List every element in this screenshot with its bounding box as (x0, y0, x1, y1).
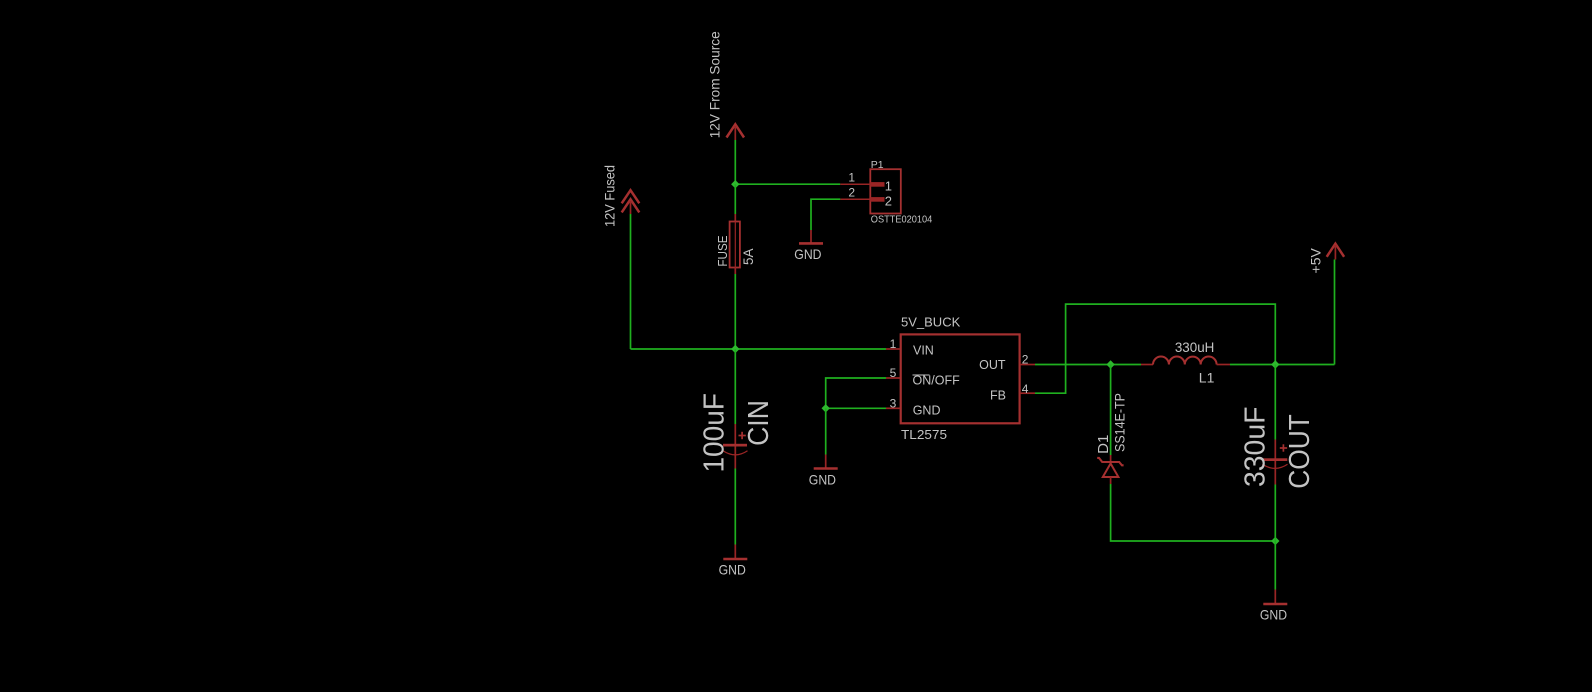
junction at COUT bottom node (1271, 537, 1279, 545)
svg-text:3: 3 (890, 396, 897, 410)
D1 cathode bar with schottky hooks (1097, 458, 1123, 465)
P1 pin 2 bar (870, 197, 884, 202)
IC U1 TL2575 (5V_BUCK) (886, 314, 1035, 442)
junction at CIN top node (731, 345, 739, 353)
wire net GND: CIN to gnd (734, 469, 736, 545)
wire net 12V_F: horizontal to VIN (631, 348, 887, 350)
wire net 12V: junction down to fuse (734, 184, 736, 214)
U1 pin 1 VIN stub (886, 348, 900, 350)
wire net GND: D1 to bottom rail (1111, 484, 1276, 541)
junction at fuse top node (731, 180, 739, 188)
svg-text:1: 1 (848, 171, 855, 185)
svg-text:2: 2 (885, 194, 892, 209)
U1 pin 5 ON/OFF stub (886, 377, 900, 379)
U1 pin 3 GND stub (886, 407, 900, 409)
wire net: gnd branch down (825, 408, 827, 454)
P1 pin 1 bar (870, 182, 884, 187)
wire net +5V: inductor to +5V node (1230, 364, 1335, 366)
svg-text:5V_BUCK: 5V_BUCK (901, 314, 961, 329)
svg-text:5: 5 (890, 366, 897, 380)
COUT plus sign (1280, 447, 1287, 449)
svg-text:OSTTE020104: OSTTE020104 (871, 214, 933, 225)
ground GND (bottom right) (1260, 590, 1287, 623)
svg-text:FUSE: FUSE (715, 235, 730, 266)
svg-text:330uF: 330uF (1240, 407, 1272, 488)
svg-text:D1: D1 (1095, 435, 1112, 454)
U1 pin 2 OUT stub (1020, 364, 1035, 366)
svg-text:TL2575: TL2575 (901, 427, 947, 442)
svg-text:CIN: CIN (743, 400, 775, 446)
connector P1 (840, 159, 932, 225)
svg-text:L1: L1 (1199, 369, 1215, 385)
supply arrow 12V From Source (707, 31, 745, 140)
svg-text:4: 4 (1022, 382, 1029, 396)
capacitor COUT 330uF (1240, 365, 1317, 489)
D1 triangle (1103, 464, 1119, 478)
svg-text:12V Fused: 12V Fused (602, 165, 618, 227)
junction at COUT top node (1271, 360, 1279, 368)
svg-text:OUT: OUT (979, 358, 1006, 372)
svg-text:330uH: 330uH (1175, 339, 1215, 355)
wire net 12V_F: fused arrow down (630, 214, 632, 349)
svg-text:+5V: +5V (1308, 247, 1324, 273)
wire net 12V_F: node down to CIN (734, 349, 736, 424)
svg-text:2: 2 (1022, 352, 1029, 366)
supply arrow +5V (1308, 244, 1345, 274)
P1 pin 1 stub (840, 183, 870, 185)
svg-text:5A: 5A (741, 249, 756, 266)
P1 pin 2 stub (840, 198, 870, 200)
wire net +5V: up to supply arrow (1334, 260, 1336, 365)
svg-text:GND: GND (794, 246, 821, 262)
svg-text:FB: FB (990, 388, 1006, 402)
svg-text:GND: GND (1260, 606, 1287, 622)
svg-text:SS14E-TP: SS14E-TP (1113, 393, 1128, 452)
ground GND (under U1) (809, 455, 838, 488)
CIN plus sign (739, 435, 746, 437)
wire net GND: P1 pin2 to gnd (811, 199, 840, 230)
wire net 12V_F: fuse to main node (734, 274, 736, 349)
wire net GND: COUT to gnd symbol (1274, 485, 1276, 542)
ground GND (under CIN) (719, 545, 748, 578)
junction at diode node (1106, 360, 1114, 368)
svg-text:1: 1 (885, 179, 892, 194)
wire net SW: junction down to D1 (1110, 365, 1112, 456)
wire net 12V: junction to P1 pin1 (735, 183, 840, 185)
svg-text:GND: GND (913, 404, 941, 418)
svg-text:1: 1 (890, 337, 897, 351)
svg-text:2: 2 (848, 186, 855, 200)
ground GND (under P1) (794, 230, 823, 262)
svg-text:100uF: 100uF (699, 393, 731, 473)
U1 pin 4 FB stub (1020, 392, 1035, 394)
svg-text:GND: GND (809, 472, 836, 488)
svg-text:P1: P1 (871, 159, 884, 171)
wire net ONOFF: pin5 to gnd branch (826, 378, 886, 408)
supply arrow 12V Fused (602, 165, 640, 227)
svg-text:VIN: VIN (913, 344, 934, 358)
capacitor CIN 100uF (699, 393, 776, 473)
wire net 12V: source arrow to junction (734, 140, 736, 184)
fuse F1 5A (715, 214, 756, 274)
junction at pin3 gnd node (822, 404, 830, 412)
wire net: pin3 GND to branch (826, 407, 886, 409)
wire net SW: OUT to inductor (1035, 364, 1141, 366)
svg-text:12V From Source: 12V From Source (707, 31, 723, 138)
svg-text:GND: GND (719, 561, 746, 577)
wire net FB: pin4 up and over (1035, 304, 1275, 393)
inductor L1 330uH (1141, 339, 1230, 385)
svg-text:COUT: COUT (1284, 414, 1316, 489)
diode D1 SS14E-TP (1095, 393, 1128, 484)
